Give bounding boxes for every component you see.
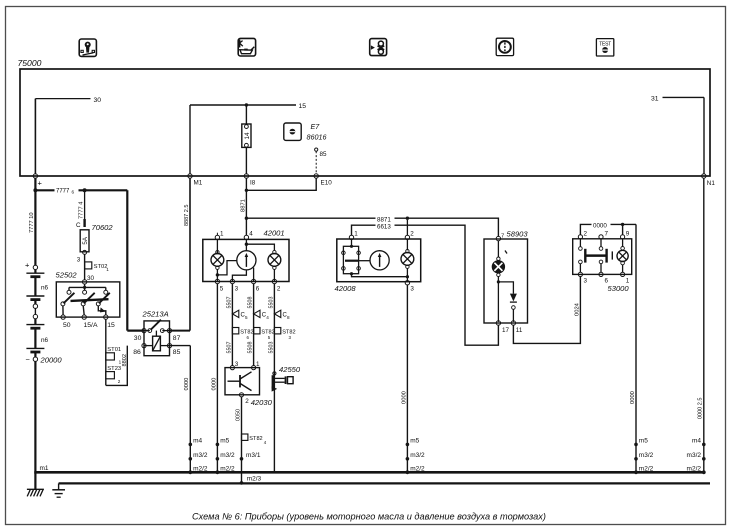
- svg-text:4: 4: [249, 230, 253, 237]
- svg-text:85: 85: [173, 349, 181, 356]
- oil level sensor unit 42030: [225, 361, 273, 407]
- wire 5508 from pin 6: [248, 283, 254, 366]
- wire 30: [35, 97, 101, 174]
- icon: brake air pressure symbol: [370, 39, 387, 56]
- svg-text:2: 2: [584, 230, 588, 237]
- svg-text:m3/2: m3/2: [193, 452, 208, 459]
- svg-text:20000: 20000: [40, 356, 63, 365]
- svg-text:5508: 5508: [248, 297, 254, 309]
- connector ST82 4: [242, 434, 267, 445]
- svg-text:5A: 5A: [82, 236, 89, 244]
- svg-text:m3/2: m3/2: [220, 452, 235, 459]
- svg-text:2: 2: [118, 379, 121, 384]
- svg-text:75000: 75000: [18, 58, 42, 68]
- svg-text:0000: 0000: [630, 391, 636, 404]
- icon: TEST oil symbol: [596, 39, 613, 56]
- pressure switch unit 58903: [484, 230, 528, 334]
- svg-text:25213A: 25213A: [142, 310, 169, 319]
- wire 8802 to relay 86: [106, 346, 128, 386]
- svg-text:m3/2: m3/2: [639, 452, 654, 459]
- wire 8887 2.5 from M1 to relay 87: [170, 178, 191, 331]
- svg-text:8: 8: [287, 315, 290, 320]
- svg-text:4: 4: [266, 315, 269, 320]
- wire 0000 2.5 from N1 to ground: [698, 178, 704, 472]
- svg-text:30: 30: [94, 97, 102, 104]
- connector I8: [244, 174, 256, 187]
- svg-text:17: 17: [502, 327, 510, 334]
- svg-text:8887 2.5: 8887 2.5: [184, 205, 190, 226]
- fuse 14: [242, 124, 251, 174]
- svg-text:Схема № 6: Приборы (уровень мо: Схема № 6: Приборы (уровень моторного ма…: [192, 512, 546, 522]
- svg-text:85: 85: [320, 151, 328, 158]
- svg-text:n6: n6: [41, 285, 49, 292]
- wire 8871 from I8: [240, 178, 248, 236]
- diagnostic connector 42550: [272, 365, 301, 392]
- wire 0000 from pin 5 to ground: [211, 283, 217, 471]
- svg-text:7777: 7777: [56, 188, 70, 194]
- ground: hatched earth at battery: [27, 472, 44, 496]
- svg-text:m2/2: m2/2: [410, 466, 425, 473]
- svg-text:42008: 42008: [335, 284, 357, 293]
- icon: brake warning symbol: [496, 38, 513, 55]
- wire 5507 from pin 3: [226, 283, 232, 366]
- svg-text:m4: m4: [193, 438, 202, 445]
- svg-text:2: 2: [245, 398, 249, 405]
- svg-text:m2/2: m2/2: [220, 466, 235, 473]
- wire 8871 horizontal to 58903 pin 7: [245, 215, 499, 237]
- instrument cluster 42008: [335, 220, 421, 293]
- svg-text:m5: m5: [639, 438, 648, 445]
- svg-text:5507: 5507: [226, 342, 232, 354]
- connector E10: [314, 174, 332, 187]
- svg-text:14: 14: [244, 132, 251, 140]
- svg-text:ST82: ST82: [249, 436, 262, 442]
- svg-text:8871: 8871: [240, 199, 246, 212]
- svg-text:I8: I8: [250, 180, 256, 187]
- svg-text:ST01: ST01: [107, 347, 121, 353]
- svg-text:0000 2.5: 0000 2.5: [698, 398, 704, 419]
- svg-text:0050: 0050: [236, 409, 242, 421]
- wire from terminal 15: [105, 319, 107, 385]
- svg-text:m2/3: m2/3: [247, 475, 262, 482]
- svg-text:70602: 70602: [92, 223, 114, 232]
- connector ST01 1: [106, 347, 122, 365]
- wire 0000 over 53000: [580, 221, 636, 235]
- svg-text:5: 5: [220, 285, 224, 292]
- svg-text:m3/2: m3/2: [410, 452, 425, 459]
- wire 0000 from relay 85 to ground: [170, 346, 191, 472]
- svg-text:31: 31: [651, 95, 659, 102]
- svg-text:0000: 0000: [211, 378, 217, 391]
- svg-text:n6: n6: [41, 337, 49, 344]
- wire 0024 from 58903 pin 11 to 53000 pin 3: [513, 276, 580, 343]
- svg-text:N1: N1: [707, 180, 716, 187]
- wire 7777 6: [35, 185, 127, 194]
- node m3/1 and m2/3: [240, 452, 262, 485]
- svg-text:15: 15: [107, 322, 115, 329]
- node m4 group (relay wire): [188, 438, 208, 475]
- svg-text:2: 2: [410, 230, 414, 237]
- ignition switch 52502: [56, 271, 120, 330]
- svg-text:TEST: TEST: [599, 41, 611, 47]
- wire link I8 to E10: [246, 178, 316, 190]
- connector ST82 5: [254, 328, 275, 341]
- connector C5: [232, 310, 248, 320]
- svg-text:0000: 0000: [401, 391, 407, 404]
- wire 31: [651, 95, 704, 174]
- svg-text:C: C: [76, 222, 81, 229]
- svg-text:0024: 0024: [574, 302, 580, 316]
- warning unit 53000: [573, 230, 632, 293]
- node m5 group (42008 pin 3): [406, 438, 426, 475]
- icon: ignition key symbol: [79, 39, 96, 56]
- svg-text:30: 30: [87, 275, 95, 282]
- wire 7777 4 to fuse: [78, 190, 84, 227]
- wire 5503 from pin 2: [268, 283, 274, 471]
- connector ST82 3: [274, 328, 295, 341]
- svg-text:m2/2: m2/2: [639, 466, 654, 473]
- svg-text:1: 1: [256, 361, 260, 368]
- svg-text:m4: m4: [692, 438, 701, 445]
- wire 15: [190, 103, 306, 174]
- node m5 group (42001 pin 5): [216, 438, 236, 475]
- svg-text:1: 1: [106, 267, 109, 272]
- relay 25213A: [133, 310, 180, 357]
- svg-text:m1: m1: [40, 465, 49, 472]
- svg-text:3: 3: [410, 286, 414, 293]
- ground: chassis earth symbol: [52, 483, 65, 497]
- svg-text:0000: 0000: [593, 223, 607, 230]
- svg-text:6613: 6613: [377, 223, 391, 230]
- svg-text:3: 3: [235, 361, 239, 368]
- terminal 85 with dashed wire to E10: [315, 148, 327, 174]
- instrument cluster 42001: [203, 229, 289, 293]
- svg-text:9: 9: [626, 230, 630, 237]
- connector ST82 6: [232, 328, 253, 341]
- wire 7777 10 battery feed: [29, 178, 37, 266]
- svg-text:15: 15: [299, 103, 307, 110]
- connector ST02 1: [85, 262, 110, 272]
- svg-text:m5: m5: [410, 438, 419, 445]
- svg-text:87: 87: [173, 335, 181, 342]
- svg-text:1: 1: [354, 230, 358, 237]
- wire 6613 from 42008 pin 1 to 58903 pin 17: [352, 222, 499, 346]
- connector C4: [254, 310, 270, 320]
- wire 0000 to ground right: [630, 224, 636, 471]
- connector + on bus: [33, 174, 42, 188]
- svg-text:m2/2: m2/2: [193, 466, 208, 473]
- svg-text:53000: 53000: [608, 284, 630, 293]
- svg-text:5508: 5508: [248, 342, 254, 354]
- svg-text:5: 5: [245, 315, 248, 320]
- svg-text:7777 10: 7777 10: [29, 212, 35, 233]
- wire to relay terminal 30: [127, 190, 144, 330]
- svg-text:+: +: [38, 179, 43, 188]
- svg-text:7: 7: [605, 230, 609, 237]
- connector ST23 2: [106, 366, 121, 384]
- svg-text:86016: 86016: [307, 133, 327, 142]
- fuse 70602 5A: [76, 222, 113, 280]
- connector N1: [702, 174, 716, 187]
- svg-text:−: −: [26, 355, 31, 364]
- svg-text:6: 6: [72, 189, 75, 194]
- svg-text:M1: M1: [194, 180, 203, 187]
- svg-text:E7: E7: [311, 122, 321, 131]
- svg-text:6: 6: [256, 285, 260, 292]
- svg-text:m2/2: m2/2: [687, 466, 702, 473]
- svg-text:m3/1: m3/1: [246, 452, 261, 459]
- svg-text:1: 1: [220, 230, 224, 237]
- svg-text:30: 30: [134, 335, 142, 342]
- svg-text:5503: 5503: [268, 297, 274, 309]
- wire 0050 from 42030 pin 2: [236, 397, 242, 483]
- svg-text:42001: 42001: [264, 229, 285, 238]
- svg-text:42030: 42030: [251, 398, 273, 407]
- connector M1: [188, 174, 203, 187]
- svg-text:52502: 52502: [56, 271, 78, 280]
- svg-text:8802: 8802: [122, 354, 128, 366]
- svg-text:3: 3: [77, 257, 81, 264]
- svg-text:E10: E10: [321, 180, 333, 187]
- svg-text:11: 11: [516, 327, 523, 334]
- control unit E7 86016: [284, 122, 327, 142]
- node m5 group (53000 wire): [634, 438, 654, 475]
- svg-text:3: 3: [584, 278, 588, 285]
- ground bus m1 line: [34, 465, 705, 473]
- svg-text:15/A: 15/A: [84, 322, 98, 329]
- svg-text:7777 4: 7777 4: [78, 202, 84, 219]
- svg-text:50: 50: [63, 322, 71, 329]
- svg-text:86: 86: [133, 349, 141, 356]
- svg-text:1: 1: [119, 360, 122, 365]
- ground bus second line: [59, 482, 710, 484]
- svg-text:5507: 5507: [226, 297, 232, 309]
- svg-text:5503: 5503: [268, 342, 274, 354]
- svg-text:+: +: [25, 261, 30, 270]
- bus 75000 harness box: [20, 69, 710, 176]
- node m4 group (N1 wire): [687, 438, 706, 475]
- icon: engine oil level symbol: [238, 38, 255, 56]
- wire 0000 from 42008 pin 3 to ground: [401, 285, 407, 472]
- svg-text:m3/2: m3/2: [687, 452, 702, 459]
- svg-text:58903: 58903: [507, 230, 529, 239]
- svg-text:3: 3: [235, 285, 239, 292]
- svg-text:42550: 42550: [279, 365, 301, 374]
- svg-text:2: 2: [277, 285, 281, 292]
- connector C8: [274, 310, 290, 320]
- svg-text:m5: m5: [220, 438, 229, 445]
- svg-text:0000: 0000: [184, 378, 190, 391]
- battery 20000: [25, 261, 62, 472]
